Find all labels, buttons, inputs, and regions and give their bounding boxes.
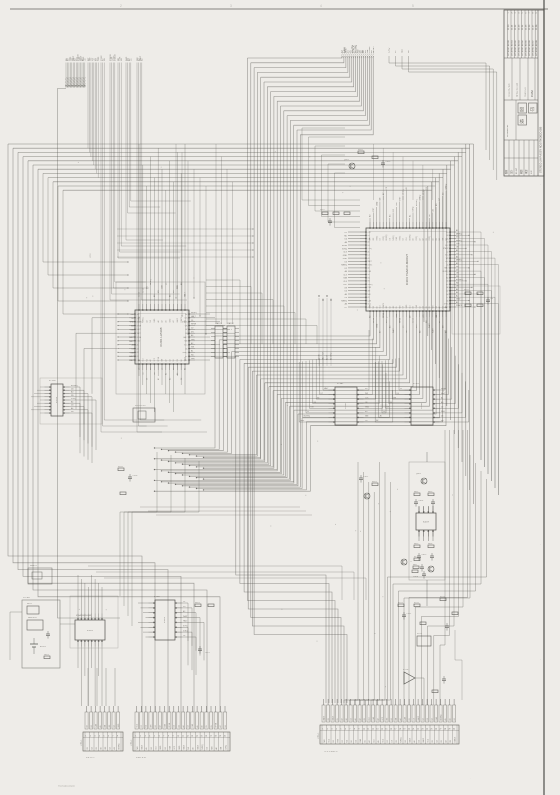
- svg-text:A4: A4: [456, 291, 458, 294]
- svg-text:1: 1: [322, 729, 323, 731]
- svg-text:RFSH: RFSH: [373, 46, 375, 53]
- svg-text:A5: A5: [137, 344, 139, 347]
- svg-text:A2: A2: [422, 238, 425, 240]
- svg-text:IC4O7: IC4O7: [423, 522, 430, 524]
- svg-text:D3: D3: [383, 411, 385, 413]
- svg-text:IC6O2: IC6O2: [164, 616, 166, 623]
- svg-text:-: -: [538, 299, 542, 300]
- svg-text:RFSH: RFSH: [373, 317, 375, 323]
- svg-text:A4: A4: [456, 288, 458, 291]
- svg-text:D4: D4: [419, 306, 421, 308]
- svg-text:M1: M1: [368, 274, 370, 276]
- svg-text:NMI: NMI: [344, 278, 348, 280]
- svg-text:A5: A5: [444, 718, 447, 720]
- svg-text:IC 4C1: IC 4C1: [413, 383, 420, 385]
- svg-text:A2: A2: [376, 718, 379, 720]
- svg-text:MREQ: MREQ: [341, 265, 347, 267]
- svg-text:D2: D2: [91, 747, 93, 749]
- svg-text:21-04: 21-04: [522, 24, 524, 30]
- svg-text:22: 22: [417, 729, 419, 731]
- svg-text:A2: A2: [185, 313, 187, 316]
- svg-text:IC 2D4: IC 2D4: [49, 380, 56, 382]
- svg-text:A0: A0: [180, 283, 183, 285]
- svg-text:-: -: [538, 184, 542, 185]
- svg-text:F6O1: F6O1: [27, 603, 32, 605]
- svg-text:D2: D2: [442, 193, 444, 195]
- svg-text:X7O1: X7O1: [417, 633, 422, 635]
- svg-text:LVCM NO.84904: LVCM NO.84904: [522, 39, 524, 56]
- svg-text:BUSRQ: BUSRQ: [71, 385, 78, 387]
- svg-text:15: 15: [201, 736, 203, 738]
- svg-text:D0: D0: [71, 388, 73, 390]
- svg-text:4: 4: [99, 736, 100, 738]
- svg-text:A6: A6: [165, 320, 168, 322]
- svg-text:D5: D5: [211, 725, 213, 727]
- svg-text:MREQ: MREQ: [393, 235, 395, 241]
- svg-text:A6: A6: [446, 286, 448, 289]
- svg-text:D2: D2: [169, 359, 171, 361]
- svg-text:-: -: [538, 659, 542, 660]
- svg-text:D3: D3: [439, 238, 441, 240]
- svg-text:D7: D7: [439, 321, 441, 323]
- svg-text:A6: A6: [201, 725, 204, 727]
- svg-text:PO−ER: PO−ER: [23, 597, 30, 599]
- svg-text:A2: A2: [438, 306, 441, 308]
- svg-text:A5: A5: [145, 747, 148, 749]
- svg-text:MREQ: MREQ: [143, 317, 145, 323]
- svg-text:GND: GND: [365, 407, 370, 409]
- svg-text:A2: A2: [368, 267, 370, 270]
- svg-text:M1: M1: [191, 331, 194, 333]
- svg-text:MREQ: MREQ: [368, 284, 374, 286]
- svg-text:A7: A7: [446, 290, 448, 293]
- svg-text:MREQ: MREQ: [400, 737, 402, 743]
- svg-text:19: 19: [403, 729, 405, 731]
- svg-text:A2: A2: [149, 359, 152, 361]
- svg-text:6: 6: [108, 736, 109, 738]
- svg-text:IC205: IC205: [345, 402, 347, 408]
- svg-text:NMI: NMI: [131, 352, 135, 354]
- svg-text:A6: A6: [192, 747, 195, 749]
- svg-text:A5: A5: [446, 237, 448, 240]
- svg-text:A0: A0: [446, 280, 448, 283]
- svg-text:4: 4: [320, 4, 322, 8]
- svg-text:10: 10: [177, 736, 179, 738]
- svg-text:A6: A6: [317, 396, 319, 399]
- svg-text:A0: A0: [71, 391, 73, 394]
- svg-text:D2: D2: [436, 740, 438, 742]
- svg-text:A4: A4: [448, 718, 451, 720]
- svg-text:LVCM NO.84906: LVCM NO.84906: [529, 39, 531, 56]
- svg-text:GND: GND: [456, 299, 461, 301]
- svg-text:MREQ: MREQ: [456, 240, 462, 242]
- svg-text:7: 7: [163, 736, 164, 738]
- svg-text:RFSH: RFSH: [441, 388, 447, 390]
- svg-text:R2O5: R2O5: [118, 466, 123, 468]
- svg-text:A3: A3: [137, 351, 139, 354]
- svg-text:M1: M1: [185, 356, 187, 358]
- svg-text:CN6O1: CN6O1: [81, 740, 83, 746]
- svg-text:LVCM NO.84901: LVCM NO.84901: [511, 39, 513, 56]
- svg-text:18: 18: [215, 736, 217, 738]
- svg-text:21-03: 21-03: [518, 24, 520, 30]
- svg-text:28: 28: [444, 729, 446, 731]
- svg-text:D3: D3: [151, 747, 153, 749]
- svg-text:HALT: HALT: [408, 738, 411, 742]
- svg-text:RST: RST: [337, 739, 339, 742]
- svg-text:D7: D7: [350, 718, 352, 720]
- svg-text:SYNC: SYNC: [183, 626, 189, 628]
- svg-text:D2: D2: [393, 209, 395, 211]
- svg-text:MREQ: MREQ: [341, 301, 347, 303]
- svg-text:RFSH: RFSH: [383, 312, 385, 318]
- svg-text:NMI: NMI: [131, 329, 135, 331]
- svg-text:NMI: NMI: [211, 746, 213, 750]
- svg-text:27: 27: [439, 729, 441, 731]
- svg-text:M1: M1: [150, 320, 152, 322]
- svg-text:D5: D5: [206, 725, 208, 727]
- svg-text:A0: A0: [435, 204, 438, 206]
- svg-text:MREQ: MREQ: [191, 312, 197, 314]
- svg-text:D2: D2: [333, 740, 335, 742]
- svg-text:1: 1: [85, 736, 86, 738]
- svg-text:A1: A1: [165, 373, 168, 375]
- svg-text:D3: D3: [390, 306, 392, 308]
- svg-text:A5: A5: [368, 250, 370, 253]
- svg-text:6: 6: [345, 729, 346, 731]
- svg-text:D5: D5: [396, 306, 398, 308]
- svg-text:2: 2: [140, 736, 141, 738]
- svg-text:NMI: NMI: [368, 294, 372, 296]
- svg-text:D1: D1: [423, 306, 425, 308]
- svg-text:TM-5190-O62O: TM-5190-O62O: [58, 785, 75, 788]
- svg-text:D6: D6: [183, 635, 185, 637]
- svg-text:RFSH: RFSH: [191, 324, 197, 326]
- svg-text:VCC: VCC: [456, 237, 461, 239]
- svg-text:D4: D4: [403, 238, 405, 240]
- svg-text:12: 12: [372, 729, 374, 731]
- svg-text:D4: D4: [431, 718, 433, 720]
- svg-text:A0: A0: [446, 299, 448, 302]
- svg-text:5: 5: [340, 729, 341, 731]
- svg-text:IC2O4: IC2O4: [56, 396, 58, 403]
- svg-text:21-00: 21-00: [508, 24, 510, 30]
- svg-text:A4: A4: [412, 238, 415, 240]
- svg-text:A0: A0: [441, 401, 443, 404]
- svg-text:RFSH: RFSH: [342, 245, 348, 247]
- svg-text:A1: A1: [408, 215, 411, 217]
- svg-text:C2O8: C2O8: [133, 475, 138, 477]
- svg-text:INT: INT: [442, 238, 444, 241]
- svg-text:IC7O1: IC7O1: [403, 669, 408, 671]
- svg-text:R31O: R31O: [320, 209, 325, 211]
- svg-text:A5: A5: [456, 262, 458, 265]
- svg-text:3: 3: [331, 729, 332, 731]
- svg-text:D0: D0: [345, 239, 347, 241]
- svg-text:A2: A2: [184, 368, 187, 370]
- svg-text:D7: D7: [342, 740, 344, 742]
- svg-text:IC2O3 YGA61O-MA/O27: IC2O3 YGA61O-MA/O27: [405, 253, 409, 285]
- svg-text:7: 7: [112, 736, 113, 738]
- svg-text:M1: M1: [146, 359, 148, 361]
- svg-text:WAIT: WAIT: [368, 260, 372, 263]
- svg-text:A0: A0: [215, 747, 218, 749]
- svg-text:D1: D1: [427, 718, 429, 720]
- svg-text:3: 3: [94, 736, 95, 738]
- svg-text:D3: D3: [113, 725, 115, 727]
- svg-text:HALT: HALT: [182, 745, 185, 749]
- svg-text:11: 11: [367, 729, 369, 731]
- svg-text:5: 5: [412, 4, 414, 8]
- svg-text:A3: A3: [446, 234, 448, 237]
- svg-text:A5: A5: [185, 347, 187, 350]
- svg-text:BUSRQ: BUSRQ: [416, 199, 418, 206]
- svg-text:BUSRQ: BUSRQ: [137, 322, 144, 324]
- svg-text:D7: D7: [456, 269, 458, 271]
- svg-text:M-117: M-117: [516, 167, 518, 174]
- svg-text:A3: A3: [185, 332, 187, 335]
- svg-text:D6: D6: [181, 359, 183, 361]
- svg-text:IC 6A1 MC14O69: IC 6A1 MC14O69: [76, 614, 91, 617]
- svg-text:TL/LD NO 004: TL/LD NO 004: [509, 83, 511, 97]
- svg-text:D2: D2: [188, 725, 190, 727]
- svg-text:A2: A2: [191, 342, 193, 345]
- svg-text:D6: D6: [132, 333, 134, 335]
- svg-text:GND: GND: [343, 258, 348, 260]
- svg-text:R3O2: R3O2: [358, 149, 363, 151]
- svg-text:17: 17: [394, 729, 396, 731]
- svg-text:18: 18: [399, 729, 401, 731]
- svg-text:3: 3: [145, 736, 146, 738]
- svg-text:GND: GND: [376, 323, 378, 328]
- svg-text:BUSRQ: BUSRQ: [456, 279, 463, 281]
- svg-text:D2: D2: [181, 378, 183, 380]
- svg-text:DTACK: DTACK: [182, 321, 188, 324]
- svg-text:NMI: NMI: [399, 305, 401, 309]
- svg-text:A3: A3: [183, 610, 185, 613]
- svg-text:D0: D0: [446, 242, 448, 244]
- svg-text:D7: D7: [439, 198, 441, 200]
- svg-text:D0: D0: [346, 718, 348, 720]
- svg-text:CN6O2: CN6O2: [131, 740, 133, 746]
- svg-text:A2: A2: [185, 328, 187, 331]
- svg-text:C4: C4: [491, 298, 493, 300]
- svg-text:A5: A5: [377, 740, 380, 742]
- svg-text:A1: A1: [191, 350, 193, 353]
- svg-text:M1: M1: [188, 747, 190, 749]
- svg-text:C4O5: C4O5: [422, 554, 427, 556]
- svg-text:20: 20: [224, 736, 226, 738]
- svg-text:NMI: NMI: [324, 739, 326, 743]
- svg-text:D2: D2: [409, 316, 411, 318]
- svg-text:R3O1: R3O1: [372, 481, 377, 483]
- svg-text:INT: INT: [395, 718, 397, 721]
- svg-text:D0: D0: [390, 402, 392, 404]
- svg-text:A4: A4: [71, 407, 73, 410]
- svg-text:IORQ: IORQ: [183, 630, 188, 632]
- svg-text:RST: RST: [445, 261, 448, 263]
- svg-text:4: 4: [149, 736, 150, 738]
- svg-text:D1: D1: [418, 740, 420, 742]
- svg-text:D4: D4: [422, 718, 424, 720]
- svg-text:HALT: HALT: [141, 745, 144, 749]
- svg-text:R412: R412: [414, 491, 418, 493]
- svg-text:CAM: CAM: [530, 90, 534, 97]
- svg-text:D1: D1: [191, 320, 193, 322]
- svg-text:D3: D3: [173, 291, 175, 293]
- svg-text:Q4O1: Q4O1: [416, 473, 421, 475]
- svg-text:A0: A0: [153, 295, 156, 297]
- svg-text:29: 29: [448, 729, 450, 731]
- svg-text:A6: A6: [168, 295, 171, 297]
- svg-text:RFSH: RFSH: [169, 722, 171, 727]
- svg-text:NMI: NMI: [402, 49, 404, 53]
- svg-text:D5: D5: [426, 187, 428, 189]
- svg-text:15: 15: [385, 729, 387, 731]
- svg-text:D1: D1: [166, 283, 168, 285]
- svg-text:A5: A5: [99, 725, 102, 727]
- svg-text:IORQ: IORQ: [383, 235, 385, 240]
- svg-text:R5: R5: [414, 556, 416, 558]
- svg-text:8: 8: [168, 736, 169, 738]
- svg-text:A3: A3: [368, 306, 370, 309]
- svg-text:A5: A5: [380, 415, 382, 418]
- svg-text:HALT: HALT: [417, 716, 420, 720]
- svg-text:A7: A7: [456, 229, 458, 232]
- svg-text:NMI: NMI: [433, 305, 435, 309]
- svg-text:GND: GND: [396, 313, 398, 318]
- svg-text:A2: A2: [159, 725, 162, 727]
- svg-text:A6: A6: [413, 740, 416, 742]
- svg-text:IORQ: IORQ: [225, 744, 227, 749]
- svg-text:D1: D1: [146, 378, 148, 380]
- svg-text:GND: GND: [300, 420, 305, 422]
- svg-text:A1: A1: [137, 355, 139, 358]
- svg-text:GND: GND: [343, 255, 348, 257]
- svg-text:A1: A1: [113, 747, 116, 749]
- svg-text:D7: D7: [345, 307, 347, 309]
- svg-text:D5: D5: [162, 368, 164, 370]
- svg-text:RA2O2: RA2O2: [228, 322, 234, 325]
- svg-text:D0: D0: [368, 245, 370, 247]
- svg-text:A4: A4: [432, 238, 435, 240]
- svg-text:D1: D1: [174, 725, 176, 727]
- svg-text:21-02: 21-02: [515, 24, 517, 30]
- svg-text:IORQ: IORQ: [71, 398, 76, 400]
- svg-text:HALT: HALT: [196, 745, 199, 749]
- svg-text:RFSH: RFSH: [143, 287, 145, 293]
- svg-text:M1: M1: [373, 306, 375, 308]
- svg-text:D3: D3: [132, 349, 134, 351]
- svg-text:CN5O1: CN5O1: [318, 733, 320, 739]
- svg-text:D2: D2: [345, 268, 347, 270]
- svg-text:9: 9: [358, 729, 359, 731]
- svg-text:INT: INT: [221, 747, 223, 750]
- svg-text:C4O6: C4O6: [413, 576, 418, 578]
- svg-text:21-08: 21-08: [536, 24, 538, 30]
- svg-text:D6O1: D6O1: [44, 654, 49, 656]
- svg-text:M1: M1: [346, 740, 348, 742]
- svg-text:A4: A4: [399, 718, 402, 720]
- svg-text:D7: D7: [387, 740, 389, 742]
- svg-text:14: 14: [196, 736, 198, 738]
- svg-text:IORQ: IORQ: [389, 47, 391, 53]
- svg-text:D2: D2: [165, 747, 167, 749]
- svg-text:SYNC: SYNC: [399, 235, 401, 240]
- svg-text:D0: D0: [345, 291, 347, 293]
- svg-text:C3O1: C3O1: [364, 476, 369, 478]
- svg-text:21-07: 21-07: [532, 24, 534, 30]
- svg-text:M1: M1: [146, 725, 148, 727]
- svg-text:BUSRQ: BUSRQ: [440, 714, 442, 721]
- svg-text:A3: A3: [389, 326, 392, 328]
- svg-text:RFSH: RFSH: [413, 317, 415, 323]
- svg-text:A6: A6: [345, 241, 347, 244]
- svg-text:BUSRQ: BUSRQ: [442, 271, 449, 273]
- svg-text:A7: A7: [340, 718, 343, 720]
- svg-text:D4: D4: [397, 393, 399, 395]
- svg-text:D7: D7: [400, 388, 402, 390]
- svg-text:LVCM NO.84908: LVCM NO.84908: [536, 39, 538, 56]
- svg-text:A3: A3: [145, 320, 148, 322]
- svg-text:LVCM NO.84907: LVCM NO.84907: [532, 39, 534, 56]
- svg-text:A4: A4: [71, 400, 73, 403]
- svg-text:A4: A4: [418, 331, 421, 333]
- svg-text:D3: D3: [155, 725, 157, 727]
- svg-text:Q3O1: Q3O1: [344, 159, 349, 161]
- svg-text:24: 24: [426, 729, 428, 731]
- svg-text:30: 30: [453, 729, 455, 731]
- svg-text:A3: A3: [137, 347, 139, 350]
- svg-text:25: 25: [430, 729, 432, 731]
- svg-text:STEREO LVl-P ASSY NO.5790O62O: STEREO LVl-P ASSY NO.5790O62O OlB: [540, 126, 543, 173]
- svg-text:D7: D7: [141, 725, 143, 727]
- svg-text:21-05: 21-05: [525, 24, 527, 30]
- svg-text:SYNC: SYNC: [376, 235, 378, 240]
- svg-text:C3O3: C3O3: [386, 161, 391, 163]
- svg-text:21-06: 21-06: [529, 24, 531, 30]
- svg-text:HALT: HALT: [137, 328, 141, 331]
- svg-text:IC 4B1: IC 4B1: [337, 383, 344, 385]
- svg-text:D6: D6: [314, 402, 316, 404]
- svg-text:GND: GND: [130, 322, 135, 324]
- svg-text:RFSH: RFSH: [137, 325, 142, 327]
- svg-text:IC 6B1: IC 6B1: [154, 596, 160, 598]
- svg-text:M1: M1: [436, 306, 438, 308]
- svg-text:BUSRQ: BUSRQ: [118, 743, 120, 750]
- svg-text:MREQ: MREQ: [446, 183, 448, 189]
- svg-text:D7: D7: [321, 393, 323, 395]
- svg-text:D3: D3: [454, 718, 456, 720]
- svg-text:NMI: NMI: [184, 341, 188, 343]
- svg-text:3: 3: [230, 4, 232, 8]
- svg-text:RA2O1: RA2O1: [216, 322, 222, 325]
- svg-text:A0: A0: [369, 215, 372, 217]
- svg-text:DTACK: DTACK: [443, 247, 449, 250]
- svg-text:A1: A1: [456, 249, 458, 252]
- svg-text:HALT: HALT: [435, 312, 438, 318]
- svg-text:A2: A2: [358, 718, 361, 720]
- svg-text:GND: GND: [376, 201, 378, 206]
- svg-text:LVCM NO.84903: LVCM NO.84903: [518, 39, 520, 56]
- svg-text:2: 2: [327, 729, 328, 731]
- svg-text:NMI: NMI: [131, 314, 135, 316]
- svg-text:MREQ: MREQ: [456, 260, 462, 262]
- svg-text:D2: D2: [441, 407, 443, 409]
- svg-text:HALT: HALT: [183, 336, 187, 339]
- svg-text:19: 19: [219, 736, 221, 738]
- svg-text:A1: A1: [405, 187, 408, 189]
